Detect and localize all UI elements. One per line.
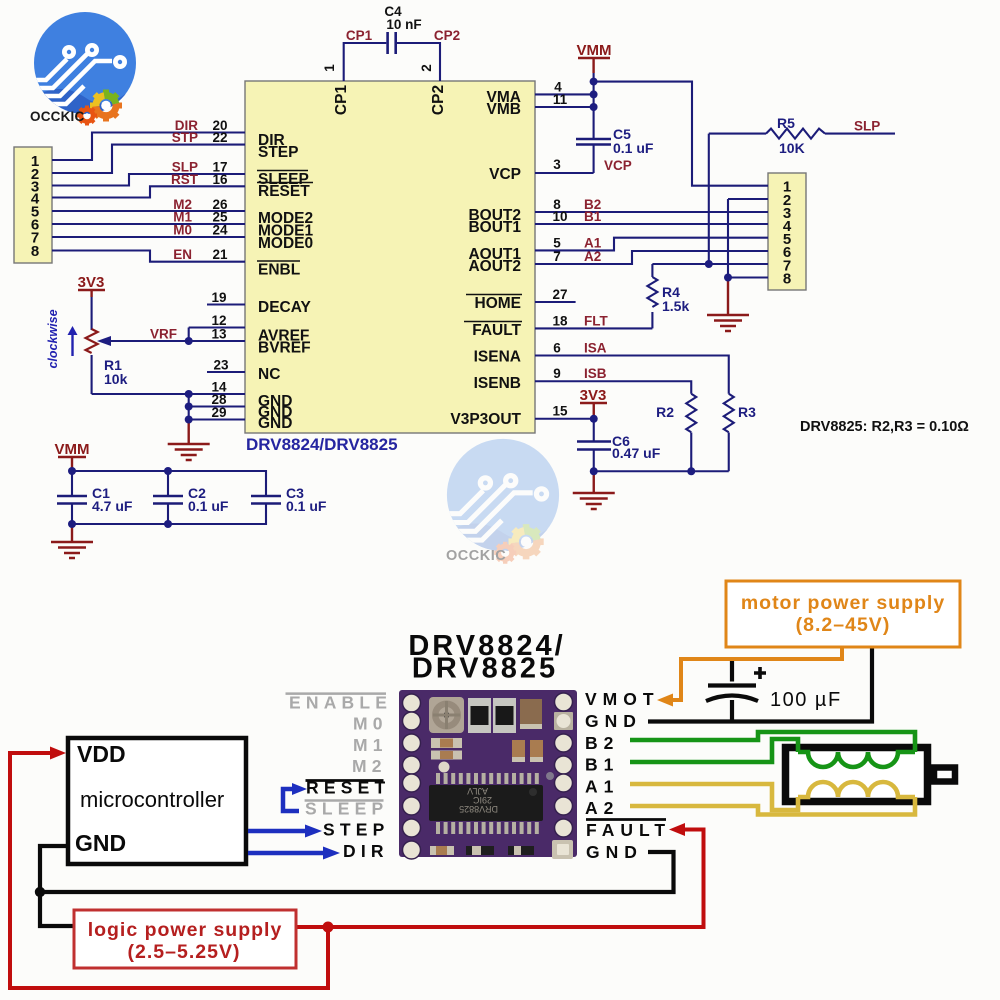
svg-text:9: 9: [553, 366, 561, 381]
svg-text:HOME: HOME: [475, 295, 522, 312]
svg-text:MODE0: MODE0: [258, 235, 313, 252]
svg-text:13: 13: [211, 327, 227, 342]
svg-text:OCCKIC: OCCKIC: [446, 548, 506, 564]
svg-text:6: 6: [553, 341, 561, 356]
svg-text:AJLV: AJLV: [467, 786, 488, 796]
svg-text:1: 1: [322, 64, 337, 72]
svg-text:3V3: 3V3: [580, 387, 607, 404]
svg-text:VMM: VMM: [577, 42, 612, 59]
svg-text:CP1: CP1: [346, 28, 373, 43]
svg-text:RESET: RESET: [258, 183, 310, 200]
svg-text:27: 27: [552, 287, 567, 302]
svg-text:M1: M1: [353, 735, 388, 755]
svg-text:V3P3OUT: V3P3OUT: [450, 411, 521, 428]
svg-text:100 µF: 100 µF: [770, 689, 842, 711]
svg-text:M2: M2: [352, 756, 387, 776]
svg-text:3: 3: [553, 157, 561, 172]
svg-text:logic power supply: logic power supply: [88, 919, 283, 941]
svg-text:10K: 10K: [779, 140, 805, 156]
svg-text:VMOT: VMOT: [585, 689, 660, 709]
svg-text:0.1 uF: 0.1 uF: [188, 498, 229, 514]
svg-text:(8.2–45V): (8.2–45V): [796, 614, 891, 636]
svg-text:ISENB: ISENB: [474, 375, 521, 392]
svg-text:GND: GND: [585, 711, 642, 731]
svg-text:21: 21: [212, 247, 228, 262]
svg-text:AOUT2: AOUT2: [468, 258, 521, 275]
svg-text:0.1 uF: 0.1 uF: [613, 140, 654, 156]
svg-text:3V3: 3V3: [78, 274, 105, 291]
svg-text:OCCKIC: OCCKIC: [30, 109, 84, 124]
svg-text:VDD: VDD: [77, 741, 126, 767]
svg-text:11: 11: [553, 92, 568, 107]
svg-text:ISA: ISA: [584, 341, 607, 356]
svg-text:23: 23: [213, 358, 229, 373]
svg-text:24: 24: [212, 223, 228, 238]
svg-text:GND: GND: [75, 830, 126, 856]
svg-text:ISENA: ISENA: [474, 349, 521, 366]
svg-text:M0: M0: [353, 714, 388, 734]
svg-text:B1: B1: [585, 755, 619, 775]
svg-text:7: 7: [553, 249, 561, 264]
svg-text:R5: R5: [777, 115, 795, 131]
svg-text:VCP: VCP: [604, 158, 632, 173]
svg-text:ENBL: ENBL: [258, 262, 300, 279]
svg-text:BVREF: BVREF: [258, 340, 311, 357]
svg-text:4.7 uF: 4.7 uF: [92, 498, 133, 514]
svg-text:BOUT1: BOUT1: [468, 219, 521, 236]
svg-text:10 nF: 10 nF: [386, 17, 421, 32]
svg-text:0.1 uF: 0.1 uF: [286, 498, 327, 514]
svg-text:DRV8825: R2,R3 = 0.10Ω: DRV8825: R2,R3 = 0.10Ω: [800, 419, 969, 435]
svg-text:2: 2: [419, 64, 434, 72]
svg-text:VCP: VCP: [489, 166, 521, 183]
svg-text:10k: 10k: [104, 371, 128, 387]
svg-text:CP2: CP2: [434, 28, 460, 43]
svg-text:EN: EN: [173, 247, 192, 262]
svg-text:motor power supply: motor power supply: [741, 592, 945, 614]
svg-text:VMB: VMB: [487, 101, 521, 118]
svg-text:B1: B1: [584, 209, 602, 224]
svg-text:29: 29: [211, 405, 226, 420]
svg-text:SLP: SLP: [854, 119, 880, 134]
svg-text:STEP: STEP: [258, 144, 298, 161]
svg-text:A1: A1: [585, 776, 619, 796]
svg-text:microcontroller: microcontroller: [80, 787, 224, 812]
svg-text:CP2: CP2: [430, 85, 447, 115]
svg-text:1.5k: 1.5k: [662, 298, 689, 314]
svg-text:18: 18: [552, 313, 568, 328]
svg-text:DRV8824/DRV8825: DRV8824/DRV8825: [246, 435, 398, 454]
svg-text:A2: A2: [585, 798, 619, 818]
svg-text:GND: GND: [586, 842, 643, 862]
svg-text:FLT: FLT: [584, 313, 608, 328]
svg-text:22: 22: [212, 130, 227, 145]
svg-text:(2.5–5.25V): (2.5–5.25V): [128, 941, 241, 963]
svg-text:8: 8: [31, 243, 39, 260]
svg-text:B2: B2: [585, 733, 619, 753]
svg-text:ISB: ISB: [584, 366, 607, 381]
svg-text:19: 19: [211, 290, 226, 305]
svg-text:RST: RST: [171, 172, 199, 187]
svg-text:M0: M0: [173, 223, 192, 238]
svg-text:VMM: VMM: [55, 441, 90, 458]
svg-text:15: 15: [552, 404, 568, 419]
svg-text:DRV8825: DRV8825: [412, 653, 558, 685]
svg-text:GND: GND: [258, 415, 292, 432]
svg-text:VRF: VRF: [150, 327, 177, 342]
svg-text:10: 10: [552, 209, 567, 224]
svg-text:R2: R2: [656, 404, 674, 420]
svg-text:DECAY: DECAY: [258, 299, 311, 316]
svg-text:A2: A2: [584, 249, 601, 264]
svg-text:0.47 uF: 0.47 uF: [612, 445, 661, 461]
svg-text:NC: NC: [258, 366, 280, 383]
svg-text:STEP: STEP: [323, 820, 390, 840]
svg-text:R3: R3: [738, 404, 756, 420]
svg-text:DIR: DIR: [343, 841, 389, 861]
svg-text:clockwise: clockwise: [46, 309, 60, 368]
svg-text:STP: STP: [172, 130, 198, 145]
svg-text:16: 16: [212, 172, 228, 187]
svg-text:ENABLE: ENABLE: [289, 693, 392, 713]
svg-text:CP1: CP1: [333, 85, 350, 116]
svg-text:FAULT: FAULT: [586, 820, 671, 840]
svg-text:FAULT: FAULT: [472, 322, 521, 339]
svg-text:8: 8: [783, 271, 791, 288]
